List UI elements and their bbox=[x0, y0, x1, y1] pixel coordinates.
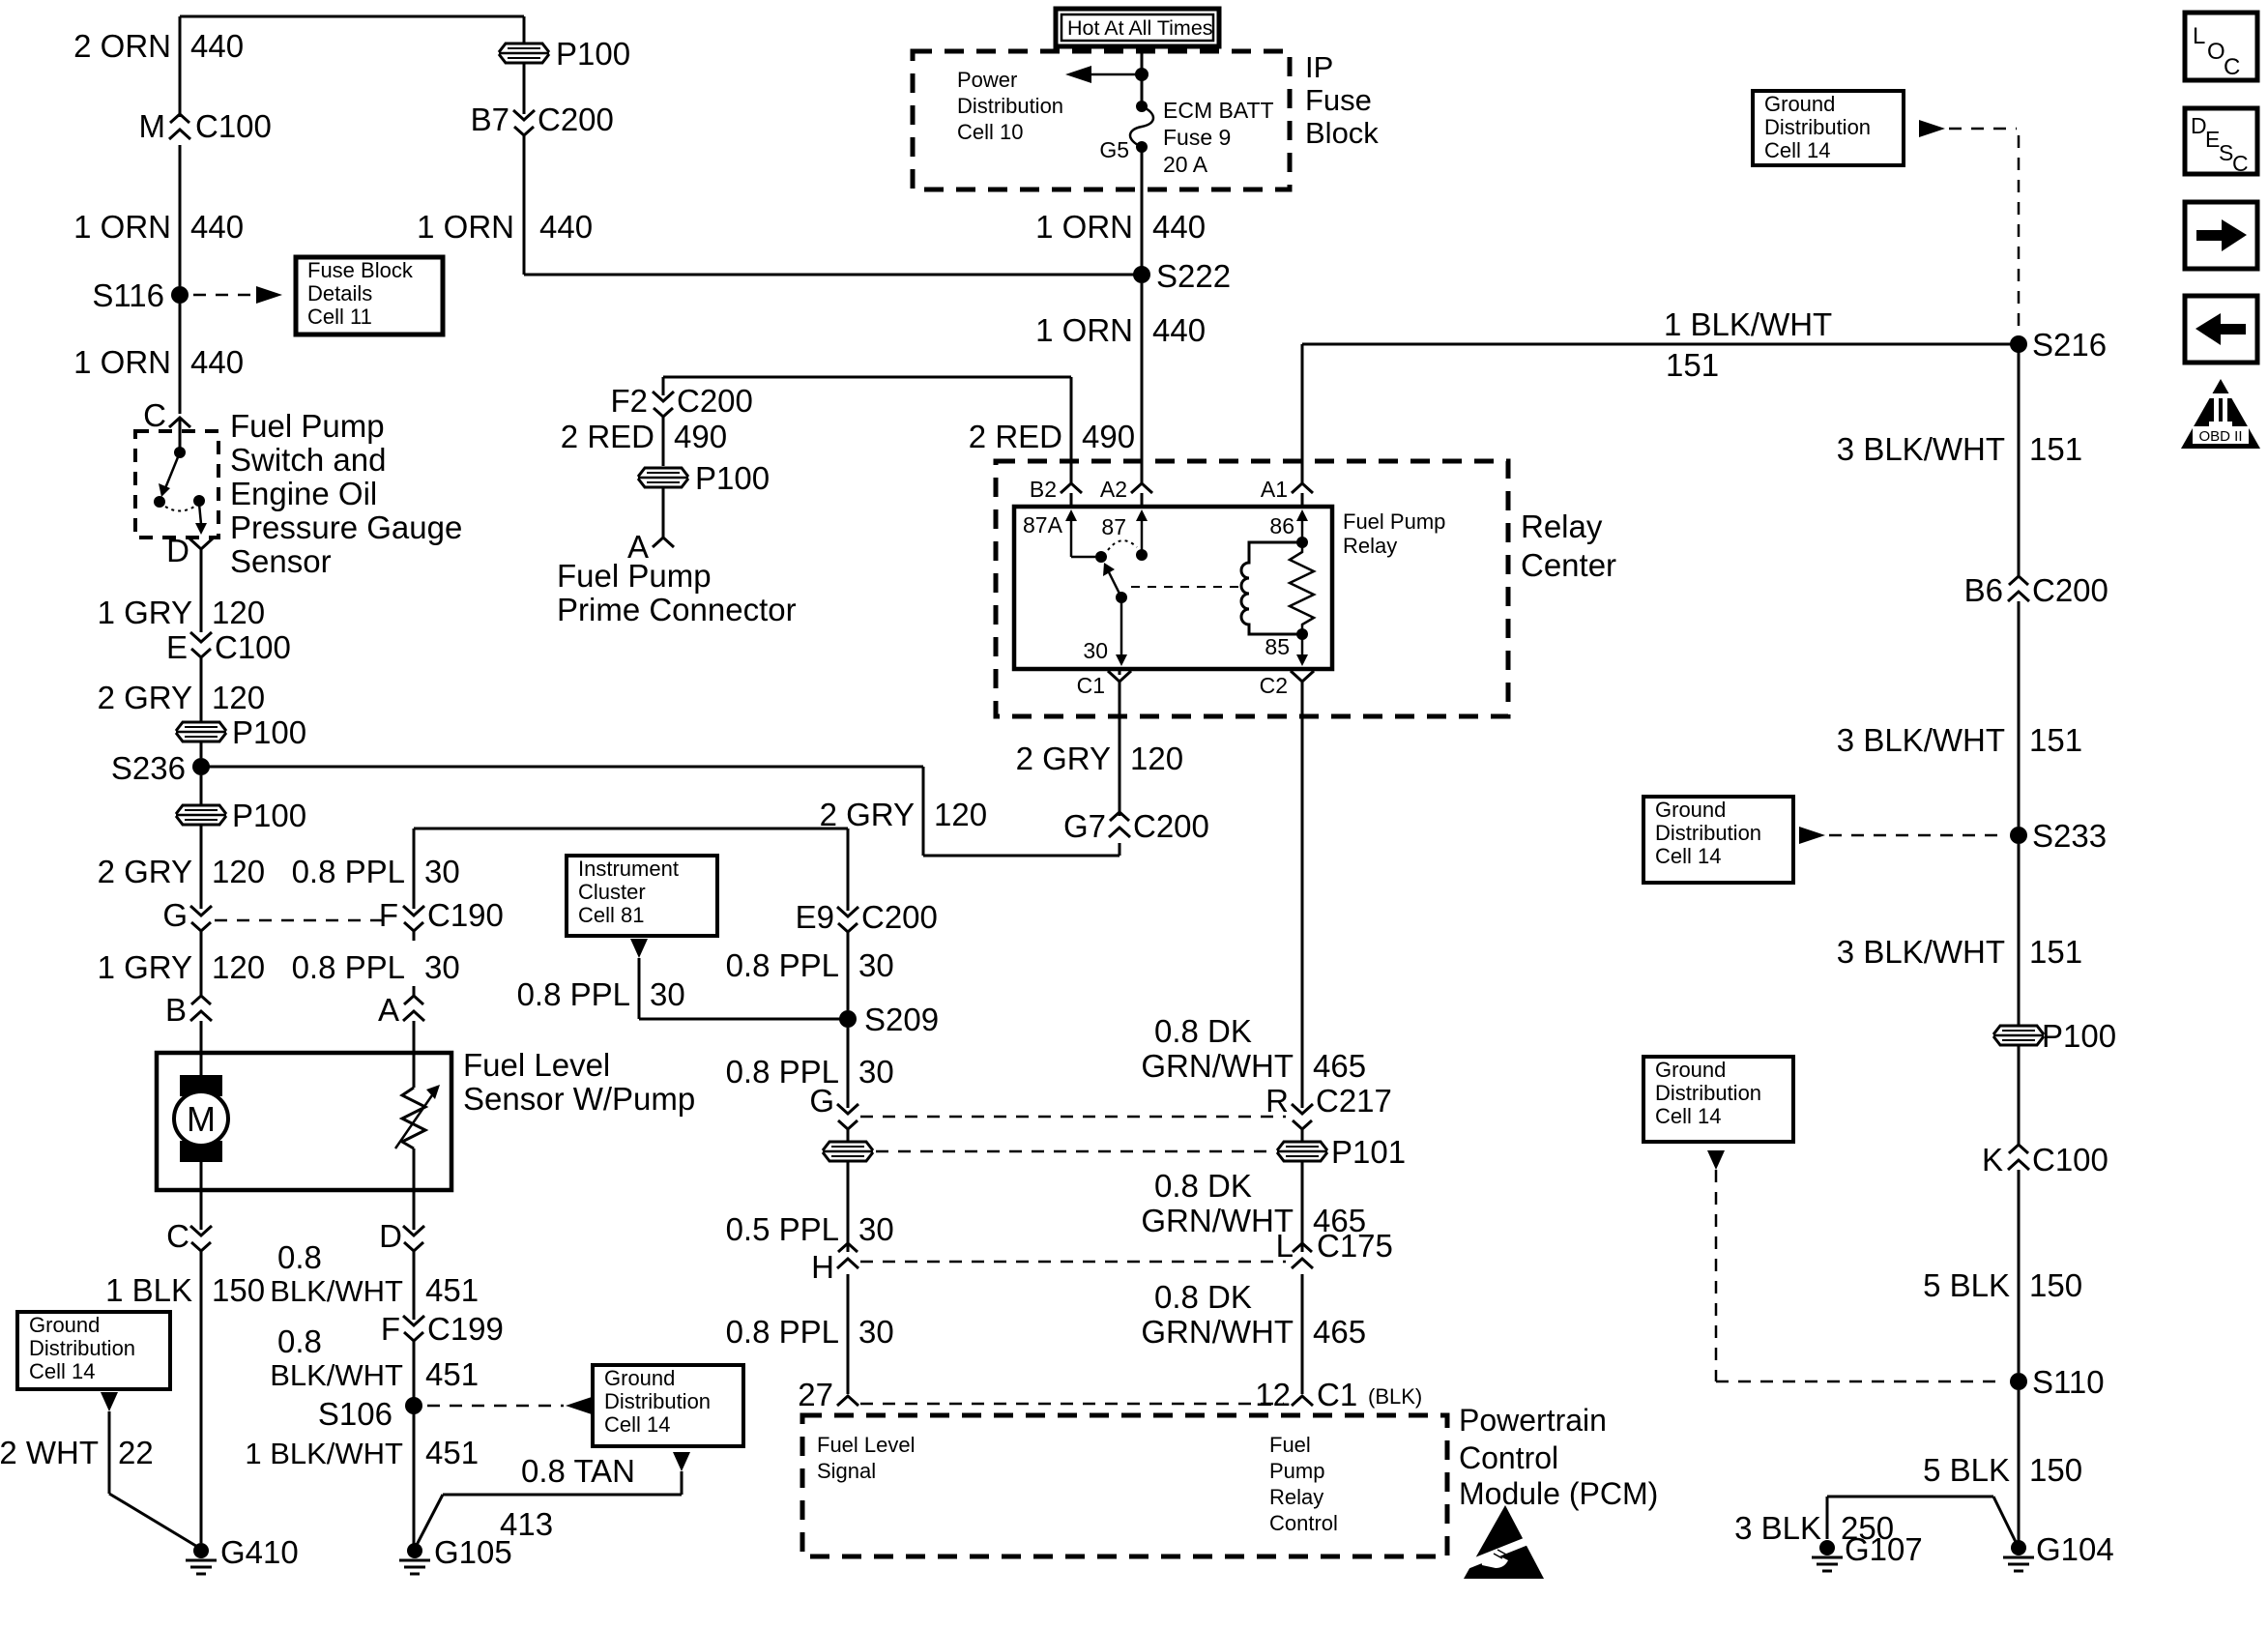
svg-text:151: 151 bbox=[2029, 722, 2082, 758]
svg-text:150: 150 bbox=[2029, 1452, 2082, 1488]
svg-text:2 ORN: 2 ORN bbox=[73, 28, 171, 64]
relay pin 87A arrow bbox=[1070, 515, 1073, 557]
svg-text:S236: S236 bbox=[111, 750, 186, 786]
reference box Ground Distribution Cell 14 bottom left bbox=[17, 1312, 170, 1389]
svg-text:Fuel Pump: Fuel Pump bbox=[1343, 509, 1445, 534]
connector C200 pin E9 bbox=[837, 907, 858, 916]
fuel pump switch dashed box bbox=[135, 431, 218, 538]
node S216 bbox=[2010, 335, 2027, 353]
connector pin C fuel pump switch bbox=[169, 418, 190, 427]
svg-text:0.8 DK: 0.8 DK bbox=[1154, 1168, 1252, 1204]
relay switch arm bbox=[1109, 572, 1121, 597]
svg-text:C: C bbox=[143, 397, 166, 433]
dashed connector line G to F bbox=[215, 919, 387, 922]
svg-text:1 BLK/WHT: 1 BLK/WHT bbox=[245, 1437, 403, 1470]
svg-text:Fuse 9: Fuse 9 bbox=[1163, 125, 1231, 150]
svg-text:Ground: Ground bbox=[1655, 1058, 1726, 1082]
svg-text:30: 30 bbox=[424, 949, 460, 985]
svg-text:Details: Details bbox=[307, 281, 372, 305]
svg-text:Cell 10: Cell 10 bbox=[957, 120, 1023, 144]
relay center dashed box bbox=[996, 461, 1508, 716]
connector C217 pin G bbox=[837, 1104, 858, 1114]
wire 2 ORN 440 left vertical bbox=[179, 16, 182, 117]
svg-text:87: 87 bbox=[1101, 514, 1126, 539]
svg-text:440: 440 bbox=[190, 209, 244, 245]
wire 1 BLK/WHT 151 horizontal bbox=[1302, 343, 2019, 346]
svg-text:Cell 81: Cell 81 bbox=[578, 903, 644, 927]
svg-text:0.8: 0.8 bbox=[277, 1239, 322, 1275]
fuel pump motor M bbox=[180, 1075, 222, 1096]
wire 3 BLK/WHT 151 segment 3 bbox=[2018, 844, 2021, 1025]
svg-text:Pressure Gauge: Pressure Gauge bbox=[230, 509, 462, 545]
svg-text:0.8 DK: 0.8 DK bbox=[1154, 1013, 1252, 1049]
svg-text:G5: G5 bbox=[1099, 137, 1129, 162]
wire 0.8 TAN 413 to G105 bbox=[673, 1452, 690, 1471]
svg-text:1 BLK: 1 BLK bbox=[105, 1272, 192, 1308]
svg-text:5 BLK: 5 BLK bbox=[1923, 1267, 2010, 1303]
svg-text:Power: Power bbox=[957, 68, 1017, 92]
svg-text:M: M bbox=[139, 108, 166, 144]
reference box Ground Distribution Cell 14 middle right bbox=[1643, 797, 1793, 883]
svg-text:F2: F2 bbox=[610, 383, 648, 419]
svg-text:Module (PCM): Module (PCM) bbox=[1459, 1476, 1658, 1511]
fuel pump relay box bbox=[1014, 507, 1332, 669]
svg-text:490: 490 bbox=[674, 419, 727, 454]
svg-text:0.8: 0.8 bbox=[277, 1323, 322, 1359]
svg-text:451: 451 bbox=[425, 1435, 479, 1470]
svg-text:G105: G105 bbox=[434, 1534, 512, 1570]
svg-text:30: 30 bbox=[858, 947, 894, 983]
svg-text:0.8 PPL: 0.8 PPL bbox=[292, 854, 405, 889]
connector C200 pin F2 bbox=[653, 392, 674, 401]
connector P100 on GRY wire lower bbox=[200, 775, 203, 804]
connector P100 on prime wire bbox=[638, 468, 688, 487]
svg-text:D: D bbox=[166, 533, 189, 568]
wire 2 RED 490 prime connector vertical bbox=[662, 377, 665, 395]
svg-text:2 GRY: 2 GRY bbox=[98, 680, 192, 715]
svg-text:Cell 14: Cell 14 bbox=[1655, 1104, 1721, 1128]
svg-text:2 RED: 2 RED bbox=[561, 419, 654, 454]
svg-text:Fuel: Fuel bbox=[1269, 1433, 1311, 1457]
dashed connector line P101 bbox=[876, 1150, 1274, 1153]
svg-text:G410: G410 bbox=[220, 1534, 299, 1570]
svg-text:A1: A1 bbox=[1261, 477, 1288, 502]
relay pin 87 arrow bbox=[1141, 515, 1144, 551]
svg-text:Center: Center bbox=[1521, 547, 1616, 583]
svg-text:G: G bbox=[809, 1083, 834, 1119]
svg-text:87A: 87A bbox=[1023, 512, 1063, 538]
svg-text:G107: G107 bbox=[1845, 1531, 1923, 1567]
svg-text:0.8 PPL: 0.8 PPL bbox=[726, 947, 839, 983]
wire 1 ORN 440 S222 to relay A2 bbox=[1141, 283, 1144, 483]
powertrain control module dashed box bbox=[802, 1415, 1447, 1556]
node S233 bbox=[2010, 827, 2027, 844]
svg-text:Powertrain: Powertrain bbox=[1459, 1403, 1607, 1438]
ground G104 bbox=[2011, 1540, 2026, 1555]
svg-text:451: 451 bbox=[425, 1272, 479, 1308]
svg-text:Block: Block bbox=[1305, 116, 1379, 150]
svg-text:C: C bbox=[166, 1218, 189, 1254]
fuel pump switch contacts and arm bbox=[179, 419, 182, 451]
svg-text:D: D bbox=[379, 1218, 402, 1254]
dashed reference to S233 bbox=[1799, 827, 1825, 844]
svg-text:0.8 PPL: 0.8 PPL bbox=[517, 976, 630, 1012]
svg-text:490: 490 bbox=[1082, 419, 1135, 454]
svg-text:1 ORN: 1 ORN bbox=[1035, 209, 1133, 245]
svg-text:Fuel Level: Fuel Level bbox=[463, 1047, 610, 1083]
fuel level variable resistor bbox=[402, 1088, 425, 1148]
svg-text:C200: C200 bbox=[538, 102, 614, 137]
svg-text:Fuel Level: Fuel Level bbox=[817, 1433, 916, 1457]
wire 3 BLK/WHT 151 segment 1 bbox=[2018, 344, 2021, 574]
connector C100 pin M bbox=[169, 130, 190, 139]
svg-text:C199: C199 bbox=[427, 1311, 504, 1347]
relay pin A2 bbox=[1131, 483, 1152, 493]
svg-text:Distribution: Distribution bbox=[29, 1336, 135, 1360]
icon back arrow box bbox=[2185, 296, 2257, 363]
svg-text:A2: A2 bbox=[1100, 477, 1127, 502]
icon DESC box bbox=[2185, 108, 2257, 174]
relay coil bbox=[1296, 537, 1308, 548]
wire 0.8 PPL 30 from C190 to E9 bbox=[413, 829, 416, 909]
svg-text:Fuel Pump: Fuel Pump bbox=[557, 558, 712, 594]
icon OBD II triangle bbox=[2181, 379, 2260, 449]
svg-text:C100: C100 bbox=[195, 108, 272, 144]
svg-text:5 BLK: 5 BLK bbox=[1923, 1452, 2010, 1488]
svg-text:3 BLK/WHT: 3 BLK/WHT bbox=[1837, 431, 2005, 467]
svg-text:S116: S116 bbox=[92, 277, 164, 313]
svg-text:Fuse: Fuse bbox=[1305, 83, 1372, 117]
svg-text:Distribution: Distribution bbox=[1764, 115, 1871, 139]
svg-text:1 BLK/WHT: 1 BLK/WHT bbox=[1664, 306, 1832, 342]
ground G107 bbox=[1819, 1540, 1835, 1555]
svg-text:C1: C1 bbox=[1317, 1377, 1357, 1412]
wire S236 branch horizontal bbox=[201, 766, 923, 769]
svg-text:B: B bbox=[165, 992, 187, 1028]
svg-text:Cell 11: Cell 11 bbox=[307, 305, 372, 329]
reference box Fuse Block Details Cell 11 bbox=[296, 257, 443, 334]
fuel level sensor with pump box bbox=[157, 1053, 451, 1190]
svg-text:Distribution: Distribution bbox=[957, 94, 1063, 118]
svg-text:B6: B6 bbox=[1964, 572, 2003, 608]
svg-text:GRN/WHT: GRN/WHT bbox=[1141, 1203, 1294, 1238]
svg-text:Fuel Pump: Fuel Pump bbox=[230, 408, 385, 444]
svg-text:Engine Oil: Engine Oil bbox=[230, 476, 377, 511]
wire 2 ORN 440 top horizontal bbox=[180, 15, 524, 18]
svg-text:Pump: Pump bbox=[1269, 1459, 1324, 1483]
svg-text:0.8 PPL: 0.8 PPL bbox=[726, 1314, 839, 1350]
svg-text:20 A: 20 A bbox=[1163, 152, 1208, 177]
wire 0.8 DK GRN/WHT 465 from C2 bbox=[1301, 694, 1304, 1108]
svg-text:451: 451 bbox=[425, 1356, 479, 1392]
svg-text:C: C bbox=[2232, 151, 2249, 176]
dashed reference to S216 bbox=[1919, 120, 1945, 137]
connector C200 pin B6 bbox=[2008, 592, 2029, 601]
svg-text:120: 120 bbox=[212, 595, 265, 630]
connector pin B fuel pump bbox=[190, 1011, 212, 1021]
svg-text:Sensor W/Pump: Sensor W/Pump bbox=[463, 1081, 695, 1117]
wire 2 GRY 120 from C1 bbox=[1119, 669, 1121, 675]
svg-text:A: A bbox=[378, 992, 399, 1028]
fuse ECM BATT Fuse 9 20A bbox=[1136, 101, 1148, 112]
ESD sensitive symbol bbox=[1464, 1505, 1544, 1579]
connector C190 pin G bbox=[190, 906, 212, 916]
svg-text:Relay: Relay bbox=[1269, 1485, 1323, 1509]
svg-text:Sensor: Sensor bbox=[230, 543, 332, 579]
node S236 bbox=[192, 758, 210, 775]
connector pin D below pump bbox=[403, 1226, 424, 1236]
svg-text:150: 150 bbox=[2029, 1267, 2082, 1303]
svg-text:30: 30 bbox=[424, 854, 460, 889]
svg-text:2 GRY: 2 GRY bbox=[820, 797, 915, 832]
relay pin C1 bbox=[1108, 671, 1131, 694]
relay coil resistor bbox=[1290, 542, 1314, 634]
PCM pin 27 bbox=[837, 1396, 858, 1406]
svg-text:S106: S106 bbox=[318, 1396, 393, 1432]
svg-text:C175: C175 bbox=[1317, 1228, 1393, 1264]
label Fuel Pump Switch and Engine Oil Pressure Gauge Sensor bbox=[230, 408, 462, 579]
wire 2 RED 490 horizontal to relay B2 bbox=[663, 376, 1071, 379]
svg-text:Signal: Signal bbox=[817, 1459, 876, 1483]
svg-text:P100: P100 bbox=[695, 460, 770, 496]
wire from hot at all times bbox=[1141, 46, 1144, 106]
wire 1 ORN 440 from fuse bbox=[1141, 147, 1144, 267]
svg-text:Cell 14: Cell 14 bbox=[1764, 138, 1830, 162]
wire 1 ORN 440 horizontal from B7 to S222 bbox=[524, 274, 1142, 276]
svg-text:R: R bbox=[1265, 1083, 1289, 1119]
svg-text:Fuse Block: Fuse Block bbox=[307, 258, 414, 282]
connector C175 pin H bbox=[837, 1259, 858, 1268]
svg-text:L: L bbox=[2193, 23, 2205, 49]
svg-text:Prime Connector: Prime Connector bbox=[557, 592, 797, 627]
relay pin C2 bbox=[1291, 671, 1314, 694]
connector pin D fuel pump switch bbox=[189, 538, 213, 562]
icon LOC box bbox=[2185, 13, 2257, 80]
svg-text:440: 440 bbox=[1152, 312, 1206, 348]
svg-text:30: 30 bbox=[650, 976, 685, 1012]
svg-text:C100: C100 bbox=[215, 629, 291, 665]
relay pin 86 arrow bbox=[1301, 515, 1304, 538]
dashed reference S116 to fuse block details bbox=[193, 294, 251, 297]
wire G7 to corner bbox=[1119, 843, 1121, 856]
svg-text:L: L bbox=[1276, 1228, 1294, 1264]
connector P100 right wire bbox=[1993, 1026, 2044, 1045]
wire 0.8 PPL 30 to PCM pin 27 bbox=[847, 1274, 850, 1394]
icon forward arrow box bbox=[2185, 202, 2257, 269]
svg-text:120: 120 bbox=[934, 797, 987, 832]
connector C200 pin B7 bbox=[513, 110, 535, 120]
wire S209 branch to instrument cluster bbox=[639, 1018, 848, 1021]
connector C190 pin F bbox=[403, 906, 424, 916]
svg-text:O: O bbox=[2207, 39, 2225, 65]
relay switch dotted arc bbox=[1108, 540, 1137, 550]
svg-text:3 BLK/WHT: 3 BLK/WHT bbox=[1837, 722, 2005, 758]
svg-text:S233: S233 bbox=[2032, 818, 2107, 854]
svg-text:C200: C200 bbox=[861, 899, 938, 935]
svg-text:C200: C200 bbox=[2032, 572, 2108, 608]
svg-text:Relay: Relay bbox=[1521, 509, 1603, 544]
wire 1 GRY 120 from switch D bbox=[200, 562, 203, 632]
svg-text:2 GRY: 2 GRY bbox=[1016, 741, 1111, 776]
wire 0.8 PPL 30 below S209 bbox=[847, 1028, 850, 1108]
svg-text:P100: P100 bbox=[232, 714, 306, 750]
svg-text:Distribution: Distribution bbox=[1655, 821, 1761, 845]
svg-text:Ground: Ground bbox=[29, 1313, 100, 1337]
node S116 bbox=[171, 286, 189, 304]
dashed reference to S110 bbox=[1707, 1150, 1725, 1170]
svg-text:120: 120 bbox=[1130, 741, 1183, 776]
junction dot and arrow to power distribution bbox=[1135, 68, 1149, 81]
svg-text:151: 151 bbox=[2029, 934, 2082, 970]
svg-text:Control: Control bbox=[1269, 1511, 1338, 1535]
svg-text:85: 85 bbox=[1265, 634, 1290, 659]
svg-text:G7: G7 bbox=[1063, 808, 1106, 844]
svg-text:P100: P100 bbox=[556, 36, 630, 72]
svg-text:151: 151 bbox=[2029, 431, 2082, 467]
svg-text:C200: C200 bbox=[677, 383, 753, 419]
svg-text:E: E bbox=[166, 629, 188, 665]
reference box Ground Distribution Cell 14 bottom middle bbox=[593, 1365, 743, 1446]
node S222 bbox=[1133, 266, 1150, 283]
svg-text:M: M bbox=[187, 1099, 216, 1139]
reference box Instrument Cluster Cell 81 bbox=[567, 856, 717, 936]
svg-text:1 ORN: 1 ORN bbox=[417, 209, 514, 245]
relay pin A1 bbox=[1292, 483, 1313, 493]
wires below fuel level sensor box bbox=[200, 1162, 203, 1230]
svg-text:GRN/WHT: GRN/WHT bbox=[1141, 1048, 1294, 1084]
svg-text:Cell 14: Cell 14 bbox=[29, 1359, 95, 1383]
svg-text:1 GRY: 1 GRY bbox=[98, 595, 192, 630]
svg-text:K: K bbox=[1982, 1142, 2003, 1177]
svg-text:2 RED: 2 RED bbox=[969, 419, 1062, 454]
svg-text:Distribution: Distribution bbox=[604, 1389, 711, 1413]
ground G105 bbox=[407, 1543, 422, 1558]
svg-text:C200: C200 bbox=[1133, 808, 1209, 844]
connector P100 top bbox=[499, 44, 549, 63]
svg-text:Instrument: Instrument bbox=[578, 857, 679, 881]
svg-text:C100: C100 bbox=[2032, 1142, 2108, 1177]
svg-text:IP: IP bbox=[1305, 50, 1333, 84]
connector C100 pin K bbox=[2008, 1160, 2029, 1170]
dashed reference S106 to ground distribution bbox=[427, 1405, 564, 1408]
svg-text:C1: C1 bbox=[1077, 673, 1105, 698]
wire B7 vertical bbox=[523, 16, 526, 43]
svg-text:1 GRY: 1 GRY bbox=[98, 949, 192, 985]
relay pin 85 arrow bbox=[1301, 638, 1304, 660]
svg-text:0.8 TAN: 0.8 TAN bbox=[521, 1453, 635, 1489]
dashed connector line G to R bbox=[860, 1116, 1286, 1119]
svg-text:440: 440 bbox=[190, 344, 244, 380]
connector C175 pin L bbox=[1292, 1259, 1313, 1268]
svg-text:B2: B2 bbox=[1030, 477, 1057, 502]
svg-text:Ground: Ground bbox=[604, 1366, 675, 1390]
svg-text:H: H bbox=[811, 1249, 834, 1285]
svg-text:F: F bbox=[381, 1311, 400, 1347]
svg-text:P100: P100 bbox=[2042, 1018, 2116, 1054]
svg-text:120: 120 bbox=[212, 854, 265, 889]
wire 3 BLK 250 G107 stub bbox=[1826, 1497, 1829, 1539]
wire 2 WHT 22 to G410 bbox=[101, 1392, 118, 1411]
svg-text:BLK/WHT: BLK/WHT bbox=[270, 1358, 403, 1392]
svg-text:P100: P100 bbox=[232, 798, 306, 833]
svg-text:Hot At All Times: Hot At All Times bbox=[1067, 16, 1213, 40]
svg-text:B7: B7 bbox=[471, 102, 509, 137]
connector P100 on GRY wire upper bbox=[200, 711, 203, 721]
svg-text:0.8 DK: 0.8 DK bbox=[1154, 1279, 1252, 1315]
svg-text:440: 440 bbox=[1152, 209, 1206, 245]
svg-text:1 ORN: 1 ORN bbox=[73, 209, 171, 245]
svg-text:1 ORN: 1 ORN bbox=[1035, 312, 1133, 348]
svg-text:150: 150 bbox=[212, 1272, 265, 1308]
connector P101 right bbox=[1277, 1142, 1327, 1161]
svg-text:E9: E9 bbox=[796, 899, 834, 935]
svg-text:3 BLK: 3 BLK bbox=[1734, 1510, 1821, 1546]
relay coil dashed actuator link bbox=[1131, 586, 1241, 588]
svg-text:G104: G104 bbox=[2036, 1531, 2114, 1567]
svg-text:30: 30 bbox=[858, 1054, 894, 1090]
svg-text:C190: C190 bbox=[427, 897, 504, 933]
svg-text:F: F bbox=[379, 897, 398, 933]
svg-text:C2: C2 bbox=[1260, 673, 1288, 698]
svg-text:27: 27 bbox=[798, 1377, 833, 1412]
svg-text:30: 30 bbox=[858, 1211, 894, 1247]
svg-text:G: G bbox=[162, 897, 188, 933]
relay pin B2 bbox=[1061, 483, 1082, 493]
svg-text:(BLK): (BLK) bbox=[1368, 1384, 1422, 1409]
node S209 bbox=[839, 1010, 857, 1028]
wires into fuel level sensor box bbox=[200, 1021, 203, 1076]
wire 5 BLK 150 segment 2 bbox=[2018, 1390, 2021, 1544]
svg-text:30: 30 bbox=[858, 1314, 894, 1350]
svg-text:0.8 PPL: 0.8 PPL bbox=[292, 949, 405, 985]
svg-text:C: C bbox=[2224, 54, 2240, 80]
svg-text:Ground: Ground bbox=[1655, 798, 1726, 822]
svg-text:2 GRY: 2 GRY bbox=[98, 854, 192, 889]
svg-text:2 WHT: 2 WHT bbox=[0, 1435, 99, 1470]
connector C217 pin R bbox=[1292, 1104, 1313, 1114]
relay pin 30 arrow bbox=[1120, 597, 1123, 660]
IP fuse block dashed box bbox=[913, 51, 1290, 189]
svg-text:S209: S209 bbox=[864, 1002, 939, 1037]
svg-text:30: 30 bbox=[1083, 638, 1108, 663]
svg-text:Ground: Ground bbox=[1764, 92, 1835, 116]
PCM pin 12 C1 BLK bbox=[1292, 1396, 1313, 1406]
svg-text:3 BLK/WHT: 3 BLK/WHT bbox=[1837, 934, 2005, 970]
wire 5 BLK 150 segment 1 bbox=[2018, 1170, 2021, 1373]
svg-text:Control: Control bbox=[1459, 1440, 1558, 1475]
svg-text:440: 440 bbox=[539, 209, 593, 245]
connector C100 pin E bbox=[190, 632, 212, 642]
wire to PCM pin 12 bbox=[1301, 1274, 1304, 1394]
svg-text:465: 465 bbox=[1313, 1048, 1366, 1084]
svg-text:BLK/WHT: BLK/WHT bbox=[270, 1274, 403, 1308]
svg-text:120: 120 bbox=[212, 680, 265, 715]
svg-text:GRN/WHT: GRN/WHT bbox=[1141, 1314, 1294, 1350]
connector C200 pin G7 bbox=[1109, 828, 1130, 837]
svg-text:Cell 14: Cell 14 bbox=[1655, 844, 1721, 868]
svg-text:S110: S110 bbox=[2032, 1364, 2105, 1400]
svg-text:12: 12 bbox=[1255, 1377, 1291, 1412]
svg-text:Switch and: Switch and bbox=[230, 442, 386, 478]
svg-text:P101: P101 bbox=[1331, 1134, 1406, 1170]
reference box Ground Distribution Cell 14 lower right bbox=[1643, 1057, 1793, 1142]
connector pin A prime bbox=[653, 538, 674, 547]
svg-text:440: 440 bbox=[190, 28, 244, 64]
svg-text:0.5 PPL: 0.5 PPL bbox=[726, 1211, 839, 1247]
svg-text:22: 22 bbox=[118, 1435, 154, 1470]
connector pin C below pump bbox=[190, 1226, 212, 1236]
svg-text:S216: S216 bbox=[2032, 327, 2107, 363]
